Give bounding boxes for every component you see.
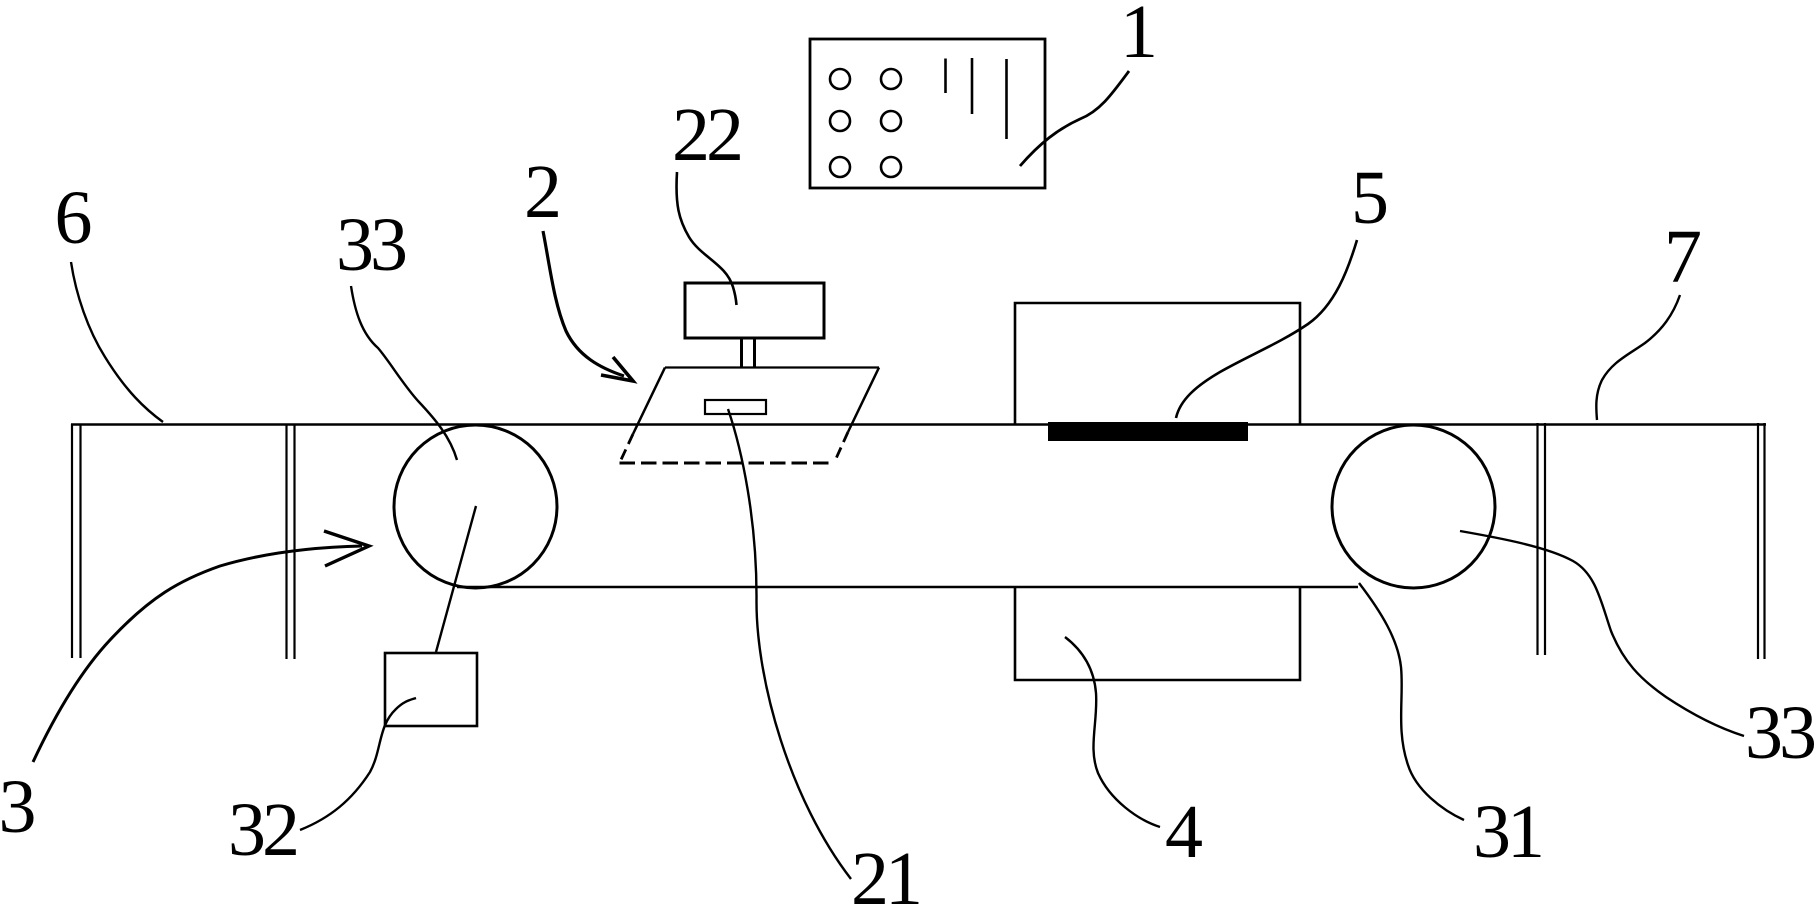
leader line 33 right [1460, 531, 1744, 736]
svg-text:7: 7 [1664, 215, 1702, 299]
left roller 33 [394, 425, 557, 588]
svg-text:31: 31 [1473, 790, 1541, 874]
lower box 4 [1015, 586, 1300, 680]
arrow leader 2 shaft [543, 231, 624, 376]
right support rail pair B [1757, 423, 1759, 659]
parallelogram left edge dashed part [620, 434, 634, 463]
weighing platform 2 (parallelogram) top edge [665, 366, 879, 368]
svg-text:5: 5 [1351, 156, 1389, 240]
leader line 6 [71, 262, 163, 422]
heating element 5 (black bar) [1048, 422, 1248, 441]
leader line 22 [677, 172, 737, 305]
right support rail pair A [1536, 423, 1538, 655]
display box 22 [685, 283, 824, 338]
svg-text:22: 22 [672, 93, 740, 177]
motor box 32 [385, 653, 477, 726]
heater top box (part of 5 assembly) [1015, 303, 1300, 424]
leader line 1 [1020, 71, 1129, 166]
svg-text:6: 6 [55, 176, 93, 260]
svg-text:3: 3 [0, 765, 37, 849]
parallelogram right edge dashed part [834, 432, 848, 463]
parallelogram right edge solid part [848, 368, 879, 433]
parallelogram bottom edge dashed [620, 462, 835, 465]
stem between 22 and scale platform [740, 338, 743, 367]
arrow leader 3 shaft [33, 546, 362, 762]
left support rail pair B [285, 424, 287, 659]
control panel 1 box [810, 39, 1045, 188]
parallelogram left edge solid part [633, 368, 665, 435]
control panel buttons [830, 69, 850, 89]
line from roller to motor 32 [436, 506, 476, 652]
svg-text:33: 33 [1745, 691, 1815, 775]
control panel slider lines [944, 59, 947, 94]
leader line 7 [1596, 295, 1680, 420]
leader line 32 [300, 698, 416, 830]
svg-text:4: 4 [1165, 790, 1203, 874]
leader line 5 [1176, 240, 1357, 418]
leader line 31 [1359, 583, 1464, 820]
leader line 33 left [351, 286, 457, 460]
svg-text:1: 1 [1120, 0, 1158, 74]
arrow head 2 [601, 357, 633, 381]
left support rail pair A [71, 424, 73, 658]
right roller 31/33 [1332, 425, 1495, 588]
svg-text:21: 21 [851, 837, 919, 908]
leader line 4 [1065, 637, 1160, 827]
svg-text:2: 2 [524, 150, 562, 234]
conveyor belt top line [71, 423, 1766, 425]
arrow head 3 [324, 531, 369, 566]
sensor rect 21 [705, 400, 766, 414]
conveyor belt bottom line [457, 586, 1358, 589]
leader line 21 [728, 409, 851, 879]
svg-text:33: 33 [336, 203, 406, 287]
svg-text:32: 32 [228, 788, 296, 872]
